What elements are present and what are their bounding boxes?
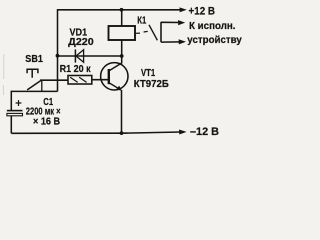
svg-text:SB1: SB1: [25, 54, 43, 65]
wire left vertical rail: [57, 9, 59, 91]
svg-text:КТ972Б: КТ972Б: [134, 79, 169, 90]
wire coil bottom lead to collector: [109, 40, 121, 71]
svg-text:Д220: Д220: [68, 37, 94, 48]
transistor VT1 emitter: [109, 83, 119, 89]
relay contact K1.1 mech link dashes: [136, 31, 148, 33]
svg-text:устройству: устройству: [187, 35, 242, 46]
wire coil top lead: [121, 10, 123, 26]
wire C1 top lead: [10, 91, 12, 110]
node junction dot emitter / bottom rail: [120, 131, 124, 135]
svg-text:К исполн.: К исполн.: [189, 21, 236, 32]
wire contact top to device: [161, 21, 180, 23]
svg-text:× 16 В: × 16 В: [33, 117, 60, 128]
resistor R1 power marks: [70, 77, 86, 82]
relay contact K1.1 lever: [149, 25, 157, 41]
wire SB1 contact to R1: [40, 79, 68, 81]
node junction dot diode line left: [56, 54, 60, 58]
switch SB1 actuator T-bar: [26, 69, 38, 78]
wire diode branch: [58, 55, 122, 57]
relay contact bracket vertical: [160, 22, 162, 42]
svg-text:VT1: VT1: [141, 68, 156, 79]
wire C1 bottom lead: [10, 116, 12, 134]
wire vertical tap to C1 node: [41, 80, 43, 91]
diode VD1 triangle: [76, 50, 84, 62]
node junction dot diode line right: [120, 54, 124, 58]
wire contact bottom to device: [161, 41, 181, 43]
relay K1 coil: [109, 26, 136, 40]
diode VD1 cathode bar: [74, 49, 76, 62]
arrow to -12V: [179, 130, 187, 135]
switch SB1 lever: [27, 80, 42, 90]
wire R1 to base: [92, 79, 109, 81]
wire emitter vertical: [121, 90, 123, 133]
wire bottom-left horizontal to rail: [11, 90, 57, 92]
capacitor C1 bottom plate (hollow): [7, 113, 23, 115]
capacitor C1 plus sign: [16, 100, 22, 106]
wire bottom -12V rail: [11, 132, 121, 134]
svg-text:–12 В: –12 В: [190, 126, 219, 138]
transistor VT1 circle: [101, 63, 128, 90]
node junction dot top wire / coil: [120, 8, 124, 12]
transistor VT1 base bar: [108, 69, 110, 84]
svg-text:+12 В: +12 В: [189, 6, 216, 18]
wire top +12V rail: [58, 9, 182, 11]
svg-text:К1: К1: [137, 16, 146, 27]
svg-text:R1 20 к: R1 20 к: [60, 64, 92, 75]
faint page edge mark: [2, 54, 5, 95]
resistor R1 body: [68, 76, 92, 85]
arrow to +12V: [180, 7, 187, 12]
capacitor C1 top plate: [7, 110, 23, 112]
